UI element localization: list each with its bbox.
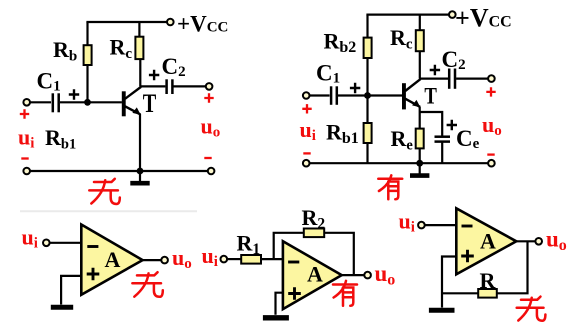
wire feedback branch up and across xyxy=(274,233,304,259)
wire node up to Rb2 xyxy=(366,58,368,97)
wire top rail to VCC terminal xyxy=(366,14,449,16)
resistor Re xyxy=(416,129,424,149)
wire Rc to collector corner xyxy=(419,51,421,78)
ground xyxy=(263,315,289,320)
output terminal xyxy=(488,75,495,82)
op-amp A triangle xyxy=(456,208,516,274)
svg-text:T: T xyxy=(424,84,437,109)
red minus at output xyxy=(204,157,211,159)
wire Ce to bottom rail xyxy=(441,142,443,163)
resistor Rc xyxy=(416,30,424,51)
input terminal xyxy=(418,222,425,229)
resistor Rb1 xyxy=(364,123,372,143)
hanzi WU (none) top-left xyxy=(89,179,120,204)
output terminal xyxy=(161,257,168,264)
capacitor Ce xyxy=(435,137,451,142)
minus input sign xyxy=(87,245,98,248)
wire collector corner to C2 xyxy=(420,77,448,79)
bottom-right terminal xyxy=(488,160,495,167)
plus input sign xyxy=(288,287,301,300)
output terminal xyxy=(364,272,371,279)
wire input to C1 xyxy=(30,101,52,103)
wire Rb2 to top rail xyxy=(366,15,368,38)
wire input to C1 xyxy=(309,94,330,96)
wire R2 down to output xyxy=(324,233,354,276)
hanzi YOU (have) bottom-middle xyxy=(333,281,357,306)
bottom-left terminal xyxy=(303,160,310,167)
red plus at output xyxy=(204,93,213,102)
VCC terminal xyxy=(449,11,456,18)
red minus at output xyxy=(487,153,494,155)
bottom-right terminal xyxy=(208,168,215,175)
ground xyxy=(410,163,429,175)
red minus at input xyxy=(21,157,28,159)
wire emitter branch to Ce xyxy=(420,112,443,136)
wire input to op-amp xyxy=(50,242,82,244)
minus input sign xyxy=(288,261,299,264)
wire noninverting input to ground xyxy=(61,276,81,305)
hanzi WU (none) bottom-left xyxy=(132,272,162,297)
output wire xyxy=(342,274,365,276)
input terminal xyxy=(303,92,310,99)
ground xyxy=(51,305,73,310)
resistor Rb xyxy=(84,45,92,65)
hanzi WU (none) bottom-right xyxy=(517,297,546,321)
red plus at output xyxy=(486,87,495,96)
wire feedback R from output down xyxy=(497,241,528,293)
output wire xyxy=(516,240,535,242)
polarity + of C2 xyxy=(430,65,440,75)
polarity + of Ce xyxy=(447,120,457,130)
wire Rc to collector corner xyxy=(139,59,141,87)
faint divider line xyxy=(20,210,197,212)
node emitter-rail junction xyxy=(416,160,423,167)
wire input to op-amp xyxy=(425,224,457,226)
resistor Rb2 xyxy=(364,38,372,58)
wire base node up to Rb xyxy=(86,46,88,104)
ground xyxy=(429,308,455,313)
wire C1 to base xyxy=(338,94,402,96)
bottom rail xyxy=(309,162,488,164)
output wire xyxy=(143,259,162,261)
svg-text:A: A xyxy=(105,247,121,272)
input terminal xyxy=(23,99,30,106)
wire C1 to base xyxy=(60,101,122,103)
svg-text:T: T xyxy=(143,89,157,118)
wire R to ground vertical xyxy=(442,292,478,294)
svg-text:A: A xyxy=(480,229,496,254)
input terminal xyxy=(221,256,228,263)
transistor T xyxy=(402,79,421,109)
wire noninverting input to ground xyxy=(276,293,283,315)
op-amp A triangle xyxy=(283,241,342,309)
resistor R1 xyxy=(241,255,261,264)
capacitor C2 xyxy=(167,79,173,94)
output terminal xyxy=(206,83,213,90)
wire R1 to inverting input xyxy=(261,258,283,260)
transistor T xyxy=(122,87,141,116)
red plus at input xyxy=(20,109,29,118)
resistor R xyxy=(478,289,497,298)
plus input sign xyxy=(461,250,474,263)
wire rail to Rc xyxy=(138,22,140,37)
resistor R2 xyxy=(304,229,324,238)
capacitor C1 xyxy=(331,86,337,105)
wire C2 to output terminal xyxy=(456,77,488,79)
plus input sign xyxy=(87,268,100,281)
wire rail to Rc xyxy=(419,15,421,31)
polarity + of C1 xyxy=(350,83,360,93)
ground xyxy=(130,171,149,183)
red plus at input xyxy=(302,104,311,113)
wire node down to Rb1 xyxy=(366,96,368,124)
polarity + of C2 xyxy=(149,70,159,80)
wire collector corner to C2 xyxy=(140,85,165,87)
svg-text:A: A xyxy=(307,262,323,287)
wire Re to bottom rail xyxy=(419,148,421,163)
wire C2 to output terminal xyxy=(174,85,206,87)
wire emitter down to ground rail xyxy=(139,114,141,171)
bottom-left terminal xyxy=(23,168,30,175)
bottom rail xyxy=(30,170,208,172)
svg-text:R: R xyxy=(480,268,497,293)
node base junction xyxy=(364,92,371,99)
op-amp A triangle xyxy=(81,225,142,295)
wire emitter down to Re xyxy=(419,107,421,129)
red minus at input xyxy=(303,152,310,154)
input terminal xyxy=(43,240,50,247)
wire noninverting input to ground xyxy=(442,257,456,308)
resistor Rc xyxy=(135,37,143,59)
capacitor C1 xyxy=(53,93,59,112)
wire Rb1 to bottom rail xyxy=(366,143,368,163)
minus input sign xyxy=(462,225,473,228)
output terminal xyxy=(535,238,542,245)
wire input to R1 xyxy=(227,258,241,260)
capacitor C2 xyxy=(449,69,455,89)
node base junction xyxy=(84,99,91,106)
wire top rail to VCC terminal xyxy=(86,21,167,23)
hanzi YOU (have) top-right xyxy=(378,175,402,199)
polarity + of C1 xyxy=(69,89,79,99)
node emitter-rail junction xyxy=(137,168,144,175)
wire Rb to top rail xyxy=(86,22,88,46)
VCC terminal xyxy=(167,19,174,26)
